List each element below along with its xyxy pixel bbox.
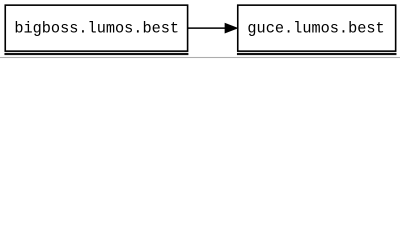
svg-text:guce.lumos.best: guce.lumos.best <box>247 19 384 37</box>
wire edge bigboss->guce <box>188 27 227 29</box>
horizontal rule <box>0 57 400 58</box>
svg-text:bigboss.lumos.best: bigboss.lumos.best <box>14 19 179 37</box>
node guce.lumos.best (box) <box>238 5 396 51</box>
node bigboss.lumos.best (box) <box>5 5 187 51</box>
clipped box top edge under bigboss node <box>4 53 188 55</box>
arrowhead <box>225 23 237 32</box>
clipped box top edge under guce node <box>237 53 397 55</box>
